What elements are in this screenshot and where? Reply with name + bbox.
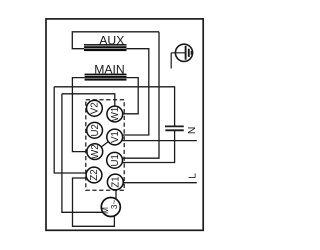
- svg-text:W2: W2: [90, 144, 101, 159]
- svg-text:U2: U2: [90, 124, 101, 136]
- svg-text:U1: U1: [110, 154, 121, 166]
- svg-text:V2: V2: [90, 102, 101, 114]
- terminal W1: [107, 106, 123, 122]
- ground symbol: [171, 44, 192, 68]
- svg-text:3~: 3~: [110, 200, 119, 210]
- wire N supply line: [122, 140, 197, 142]
- motor label M 3~: [101, 200, 119, 214]
- svg-text:AUX: AUX: [99, 33, 124, 47]
- svg-text:W1: W1: [110, 107, 121, 122]
- wire Z1 to motor top: [115, 190, 117, 199]
- wire MAIN left to W2: [72, 78, 87, 152]
- wire Z2 lower to motor bottom: [73, 178, 115, 226]
- svg-text:Z1: Z1: [111, 176, 122, 187]
- svg-text:V1: V1: [110, 131, 121, 143]
- terminal V2: [87, 100, 103, 116]
- svg-text:N: N: [187, 127, 198, 134]
- terminal V1: [107, 129, 123, 145]
- svg-text:L: L: [187, 173, 198, 179]
- wire L supply line: [123, 182, 197, 184]
- wire W1 top bus: [62, 94, 115, 107]
- winding AUX bar: [84, 44, 127, 51]
- terminal U2: [87, 122, 103, 138]
- terminal Z1: [107, 174, 123, 190]
- svg-text:MAIN: MAIN: [94, 62, 124, 76]
- wire AUX right to V1: [122, 49, 149, 135]
- wire left mid bus down to motor left: [62, 94, 103, 213]
- terminal Z2: [86, 167, 102, 183]
- terminal U1: [107, 152, 123, 168]
- terminal W2: [87, 144, 103, 160]
- winding MAIN bar: [85, 74, 127, 81]
- svg-text:Z2: Z2: [89, 169, 100, 180]
- border frame: [46, 19, 203, 230]
- capacitor lower lead down to U1: [122, 131, 175, 163]
- wire MAIN right to W1: [123, 78, 139, 114]
- capacitor C plates: [165, 126, 184, 130]
- motor M circle: [101, 198, 120, 217]
- wire AUX left loop: [72, 32, 159, 49]
- wire top bus to capacitor top: [54, 87, 174, 126]
- terminal box dashed: [86, 100, 124, 190]
- wire left bus down to Z2 upper: [54, 87, 87, 173]
- link W2-V1: [101, 142, 109, 148]
- svg-text:M: M: [101, 207, 110, 214]
- wire AUX loop right vertical down to U1: [122, 32, 159, 158]
